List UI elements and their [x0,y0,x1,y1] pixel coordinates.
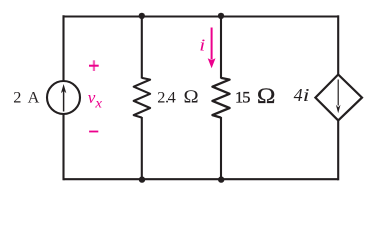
wire branch 15ohm lower [220,117,222,179]
current source value 2 A [13,87,39,106]
wire branch 15ohm upper [220,17,222,79]
svg-text:i: i [303,85,310,105]
wire right lower [337,120,339,181]
svg-text:i: i [199,37,205,55]
label - (vx polarity) [89,131,98,133]
svg-text:4: 4 [168,87,176,106]
current source I1 circle [47,81,80,114]
current i arrow (magenta) [208,28,216,69]
resistor R1 2.4ohm zigzag [134,78,150,118]
svg-text:x: x [94,96,102,111]
resistor R1 value 2.4 [157,87,175,106]
wire bottom [64,178,339,180]
node top-right junction dot [218,13,224,19]
node top-left junction dot [139,13,145,19]
svg-text:4: 4 [294,85,303,105]
dependent source U1 arrow [336,80,341,114]
resistor R2 unit ohm [257,84,276,108]
label vx [88,88,103,111]
resistor R2 15ohm zigzag [212,78,229,118]
dependent source value 4i [294,85,310,105]
svg-text:Ω: Ω [183,87,199,107]
svg-text:5: 5 [242,87,250,106]
node bottom-left junction dot [139,176,145,182]
svg-text:2: 2 [13,87,21,106]
wire left lower [62,114,64,180]
wire top [64,15,339,17]
svg-text:Ω: Ω [257,84,276,108]
label + (vx polarity) [89,60,99,71]
resistor R2 value 15 [235,87,250,106]
svg-text:A: A [28,87,40,106]
wire left upper [62,15,64,81]
resistor R1 unit ohm [183,87,199,107]
node bottom-right junction dot [218,176,224,182]
wire branch 2.4ohm lower [141,117,143,179]
dependent source U1 diamond [315,75,362,121]
wire right upper [337,15,339,75]
wire branch 2.4ohm upper [141,17,143,79]
current i label (magenta) [199,37,205,55]
current source I1 arrow [61,84,66,112]
